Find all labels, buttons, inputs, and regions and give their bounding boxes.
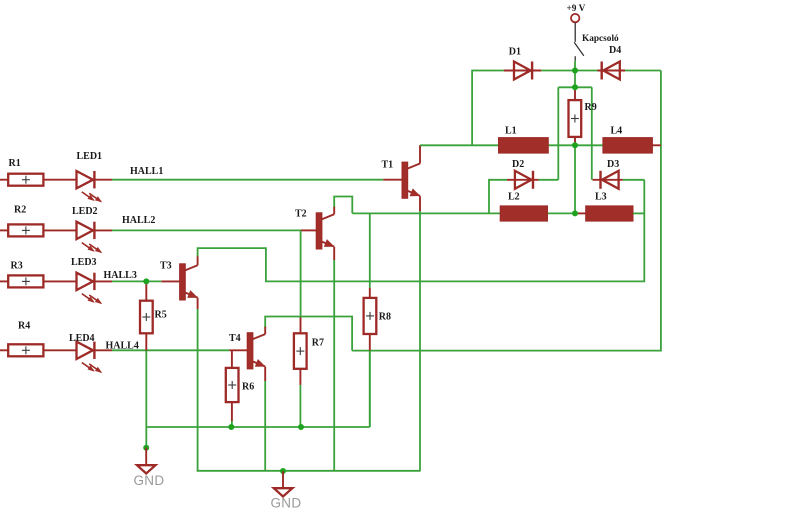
wire gnd rail B — [197, 470, 421, 472]
svg-text:T2: T2 — [295, 208, 307, 219]
wire R6 top — [231, 350, 233, 368]
ground GND2 — [271, 471, 302, 510]
transistor T3 — [161, 264, 198, 300]
wire L1 row — [420, 144, 603, 146]
wire D2 anode — [489, 180, 507, 214]
svg-text:D4: D4 — [609, 45, 621, 56]
svg-text:R2: R2 — [14, 204, 26, 215]
wire L2 row — [352, 212, 575, 214]
diode D3 — [593, 171, 623, 189]
resistor R3 — [0, 275, 43, 287]
resistor R7 — [294, 333, 307, 369]
wire HALL1 — [112, 179, 383, 181]
wire R7 bottom — [299, 369, 301, 427]
svg-text:LED4: LED4 — [69, 333, 95, 344]
wire D4 anode — [625, 70, 661, 72]
inductor L1 — [499, 138, 549, 154]
wire HALL3 — [112, 280, 161, 282]
wire R9 top rail — [558, 86, 592, 88]
inductor L4 — [603, 138, 661, 154]
wire gnd rail A — [146, 351, 369, 427]
ground GND1 — [134, 448, 165, 488]
svg-text:D1: D1 — [509, 47, 521, 58]
resistor R1 — [0, 174, 43, 186]
wire T4 collector — [265, 317, 352, 351]
wire switch to junction — [574, 61, 576, 88]
wire R8 bottom — [369, 334, 371, 427]
svg-text:R5: R5 — [155, 310, 167, 321]
node junction HALL3 — [143, 278, 149, 284]
node junction GND2 — [280, 468, 286, 474]
wire R6 bottom — [231, 402, 233, 427]
wire center column — [574, 145, 576, 213]
wire R5 bottom — [145, 333, 147, 447]
svg-text:HALL4: HALL4 — [106, 340, 139, 351]
svg-text:LED1: LED1 — [77, 151, 103, 162]
wire HALL2 — [112, 229, 301, 231]
resistor R2 — [0, 224, 43, 236]
wire D2 cathode rail — [557, 87, 559, 180]
node junction R6 foot — [228, 424, 234, 430]
node junction D1-D4 — [572, 68, 578, 74]
svg-text:+9 V: +9 V — [567, 4, 586, 14]
svg-text:LED3: LED3 — [71, 257, 97, 268]
wire T3 collector — [198, 180, 645, 282]
node junction L1-L4 — [572, 142, 578, 148]
diode D2 — [507, 171, 539, 189]
svg-text:L4: L4 — [611, 126, 623, 137]
resistor R8 — [364, 298, 377, 334]
wire R5 top — [145, 281, 147, 300]
wire T2 emitter — [333, 247, 335, 471]
wire T3 emitter — [197, 298, 199, 471]
resistor R9 — [569, 100, 582, 137]
resistor R6 — [226, 368, 239, 402]
value labels — [9, 45, 623, 393]
svg-text:HALL2: HALL2 — [122, 215, 155, 226]
diode D1 — [504, 62, 542, 80]
wire D1 cathode — [541, 70, 575, 72]
svg-text:R9: R9 — [585, 102, 597, 113]
node junction R7 foot — [298, 424, 304, 430]
switch Kapcsolo — [574, 23, 619, 61]
wire D3 anode — [623, 179, 644, 181]
node junction L2-L3 — [572, 210, 578, 216]
svg-text:L3: L3 — [595, 191, 607, 202]
LED LED1 — [44, 171, 113, 202]
wire HALL4 — [112, 349, 229, 351]
svg-text:HALL1: HALL1 — [130, 166, 163, 177]
wire D2 cathode — [539, 179, 559, 181]
svg-text:R4: R4 — [18, 321, 30, 332]
svg-text:D3: D3 — [607, 159, 619, 170]
node junction R9 top — [572, 84, 578, 90]
svg-text:GND: GND — [134, 473, 165, 488]
svg-text:T3: T3 — [160, 260, 172, 271]
wire to D4 anode — [352, 71, 661, 351]
transistor T2 — [301, 213, 335, 249]
transistor T1 — [383, 162, 420, 198]
svg-text:R7: R7 — [312, 337, 324, 348]
svg-text:L2: L2 — [508, 191, 520, 202]
wire R9 leads — [574, 87, 576, 145]
svg-text:R8: R8 — [379, 312, 391, 323]
LED LED4 — [44, 342, 113, 373]
LED LED2 — [44, 222, 113, 253]
svg-text:L1: L1 — [505, 126, 517, 137]
inductor L3 — [576, 206, 644, 221]
wire T2 collector — [334, 197, 352, 215]
node +9V terminal — [567, 4, 586, 22]
wire D4 cathode — [575, 70, 598, 72]
LED LED3 — [44, 273, 113, 304]
node junction GND1 — [143, 445, 149, 451]
diode D4 — [598, 62, 626, 80]
resistor R4 — [0, 344, 43, 356]
svg-text:HALL3: HALL3 — [104, 270, 137, 281]
wire T2 base to R7 — [300, 230, 302, 333]
transistor T4 — [229, 333, 265, 369]
svg-text:LED2: LED2 — [72, 206, 98, 217]
wire D1 anode — [472, 71, 504, 146]
svg-text:GND: GND — [271, 496, 302, 511]
svg-text:Kapcsoló: Kapcsoló — [582, 34, 619, 44]
wire D3 cathode rail — [591, 87, 593, 180]
svg-text:R6: R6 — [242, 381, 254, 392]
svg-text:D2: D2 — [512, 159, 524, 170]
resistor R5 — [140, 301, 153, 334]
inductor L2 — [500, 206, 547, 221]
wire R8 top — [369, 213, 371, 298]
svg-text:R3: R3 — [11, 260, 23, 271]
svg-text:T4: T4 — [229, 333, 241, 344]
svg-text:R1: R1 — [9, 158, 21, 169]
svg-text:T1: T1 — [382, 160, 394, 171]
wire T1 emitter — [419, 196, 421, 471]
wire T4 emitter — [264, 367, 266, 471]
wire T1 collector — [420, 145, 421, 163]
